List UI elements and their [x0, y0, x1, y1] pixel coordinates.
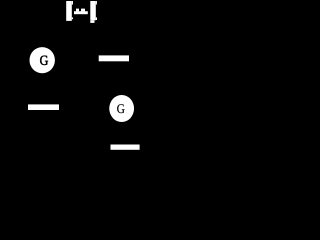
- battery B1 middle cells: [74, 9, 88, 15]
- battery B1 left plate: [66, 1, 73, 21]
- battery B1 right plate: [90, 1, 97, 23]
- resistor R3: [111, 145, 140, 150]
- generator G2: [109, 95, 134, 122]
- resistor R1: [99, 55, 129, 61]
- battery B1: [66, 1, 97, 23]
- resistor R2: [28, 104, 59, 110]
- generator G1: [30, 47, 55, 73]
